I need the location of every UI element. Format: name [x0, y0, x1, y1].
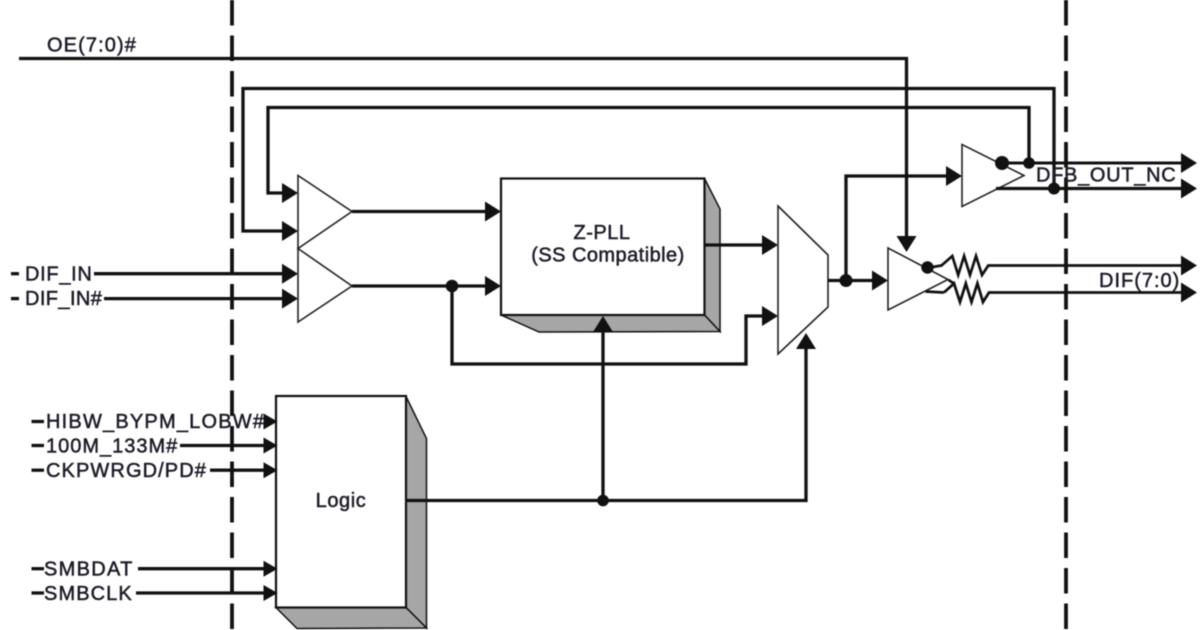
net SMBCLK pin tick [32, 591, 45, 594]
mux M1 [778, 206, 828, 354]
arrowhead into U3 [946, 166, 962, 186]
inversion dot U3 top edge [995, 156, 1009, 170]
wire feedback A (DFB_OUT# to U1) [243, 89, 1054, 232]
output buffer U3 (DFB) [962, 145, 1024, 207]
svg-text:100M_133M#: 100M_133M# [46, 436, 178, 458]
wire DFB_OUT# [996, 187, 1182, 190]
wire U1 output to PLL [352, 210, 486, 213]
net DIF_IN pin tick [11, 272, 19, 275]
Logic box U6 [276, 396, 406, 608]
arrowhead feedback B into U1 [282, 183, 298, 203]
net 100M_133M# pin tick [32, 444, 45, 447]
net CKPWRGD/PD# pin tick [32, 469, 45, 472]
arrowhead OE down into U4 [897, 236, 917, 252]
svg-text:Z-PLL: Z-PLL [574, 222, 631, 244]
wire PLL bypass (U2 out to mux lower input) [452, 286, 763, 364]
junction dot mux out [840, 274, 853, 287]
wire feedback B (DFB_OUT to U1) [268, 108, 1029, 194]
arrowhead HIBW into Logic [264, 414, 278, 430]
arrowhead CKPWRGD into Logic [264, 462, 278, 478]
Z-PLL shadow bottom face [501, 315, 720, 332]
arrowhead SMBDAT into Logic [264, 561, 278, 577]
wire PLL output to mux [705, 243, 764, 246]
junction dot Logic out [597, 495, 609, 507]
wire DIF_IN# [104, 297, 283, 300]
arrowhead Logic out into mux select [796, 333, 816, 349]
output buffer U4 (DIF) [888, 248, 948, 310]
net HIBW_BYPM_LOBW# pin tick [32, 420, 45, 423]
wire stub U4 lower output [926, 280, 955, 293]
Z-PLL shadow right face [705, 179, 721, 332]
wire CKPWRGD/PD# [210, 469, 265, 472]
svg-text:HIBW_BYPM_LOBW#: HIBW_BYPM_LOBW# [46, 411, 265, 433]
svg-text:DIF_IN: DIF_IN [25, 264, 93, 286]
arrowhead DFB_OUT [1181, 153, 1197, 173]
arrowhead U1 out into PLL [485, 202, 501, 222]
input buffer U1 [298, 176, 352, 249]
wire DFB_OUT [1002, 162, 1182, 165]
inversion dot U4 top edge [921, 261, 933, 273]
arrowhead feedback A into U1 [282, 221, 298, 241]
resistor R2 (DIF#) [944, 284, 1182, 303]
arrowhead DIF_IN# into U2 [282, 289, 298, 309]
svg-text:DIF(7:0): DIF(7:0) [1099, 270, 1180, 292]
arrowhead 100M into Logic [264, 438, 278, 454]
svg-text:Logic: Logic [316, 490, 367, 512]
left boundary dashed line [230, 0, 234, 630]
wire SMBDAT [138, 567, 265, 570]
svg-text:CKPWRGD/PD#: CKPWRGD/PD# [46, 460, 207, 482]
arrowhead U2 out into PLL [485, 276, 501, 296]
svg-text:(SS Compatible): (SS Compatible) [531, 245, 684, 267]
wire Logic to PLL control [601, 331, 604, 501]
junction dot DFB_OUT feedback [1023, 157, 1035, 169]
arrowhead DIF# [1181, 283, 1197, 303]
svg-text:DFB_OUT_NC: DFB_OUT_NC [1036, 165, 1176, 187]
arrowhead PLL out into mux [762, 235, 778, 255]
svg-text:OE(7:0)#: OE(7:0)# [47, 35, 137, 57]
wire mux out to U3 [846, 176, 947, 281]
wire Logic output [406, 348, 806, 501]
right boundary dashed line [1064, 0, 1068, 630]
arrowhead Logic control into PLL [593, 316, 613, 332]
svg-text:SMBDAT: SMBDAT [44, 559, 134, 581]
Logic shadow bottom face [276, 608, 427, 629]
wire 100M_133M# [180, 444, 265, 447]
arrowhead DIF_IN into U2 [282, 264, 298, 284]
net DIF_IN# pin tick [11, 297, 19, 300]
svg-text:SMBCLK: SMBCLK [44, 583, 133, 605]
wire DIF_IN [94, 272, 283, 275]
wire mux output [828, 279, 873, 282]
wire SMBCLK [136, 591, 265, 594]
arrowhead mux out into U4 [872, 271, 888, 291]
Logic shadow right face [406, 397, 427, 629]
arrowhead DFB_OUT# [1181, 179, 1197, 199]
resistor R1 (DIF) [930, 256, 1182, 275]
input buffer U2 [298, 249, 352, 323]
arrowhead DIF [1181, 256, 1197, 276]
arrowhead SMBCLK into Logic [264, 585, 278, 601]
junction dot U2 out [446, 280, 459, 293]
wire OE(7:0)# [19, 59, 907, 237]
junction dot DFB_OUT# feedback [1048, 183, 1060, 195]
Z-PLL box U5 [501, 179, 705, 316]
net SMBDAT pin tick [32, 567, 45, 570]
svg-text:DIF_IN#: DIF_IN# [25, 288, 103, 310]
arrowhead bypass into mux [762, 306, 778, 326]
wire U2 output to PLL [352, 284, 486, 287]
